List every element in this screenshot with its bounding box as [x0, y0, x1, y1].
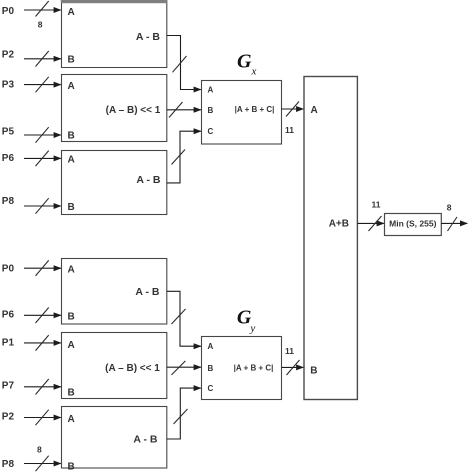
- subtractor SUB4 (A - B, row 1 of Gy): [62, 259, 167, 325]
- svg-text:B: B: [68, 55, 75, 66]
- SUB2 pin B: [68, 131, 75, 142]
- svg-text:P2: P2: [2, 412, 15, 423]
- wire U4 output (final S): [441, 222, 467, 224]
- svg-text:A: A: [208, 342, 214, 351]
- wire input P2 to SUB1.B: [24, 58, 61, 60]
- wire Gy output U2 to U3.B: [282, 366, 304, 368]
- svg-text:P0: P0: [2, 264, 15, 275]
- SUB6 function label A - B: [133, 434, 158, 446]
- subtractor SUB1 (A - B, row 1 of Gx): [61, 0, 168, 68]
- wire U3 output to U4: [357, 222, 383, 224]
- subtractor-shifter SUB5 ((A-B)<<1, row 2 of Gy): [62, 333, 167, 399]
- svg-text:P2: P2: [2, 50, 15, 61]
- svg-text:|A + B + C|: |A + B + C|: [235, 105, 275, 114]
- svg-text:B: B: [68, 388, 75, 399]
- wire SUB5 output to U2.B: [167, 366, 201, 368]
- bus width label 8 (P0 wire): [38, 20, 43, 30]
- svg-text:P6: P6: [2, 310, 15, 321]
- SUB2 function label (A - B) << 1: [106, 105, 161, 116]
- U1 pin A: [208, 86, 214, 95]
- U3 pin B: [310, 366, 317, 377]
- input port label P2 (top): [2, 50, 15, 61]
- bus slash on SUB3-U1 wire: [172, 150, 186, 165]
- bus slash on SUB1-U1 wire: [173, 56, 187, 72]
- bus slash on bottom P2 wire: [36, 410, 49, 426]
- svg-text:y: y: [249, 323, 255, 335]
- svg-text:A: A: [208, 86, 214, 95]
- adder block U3 (A+B): [304, 77, 357, 400]
- svg-text:8: 8: [447, 203, 452, 213]
- SUB3 pin B: [68, 202, 75, 213]
- wire input P6 to SUB3.A: [24, 157, 61, 159]
- svg-text:P8: P8: [2, 459, 15, 470]
- bus slash on SUB5-U2 wire: [172, 361, 186, 375]
- bus slash on P7 wire: [36, 379, 49, 395]
- wire SUB6 output to U2.C: [167, 388, 201, 439]
- bus slash on final output wire: [448, 217, 458, 231]
- wire SUB1 output to U1.A: [167, 36, 201, 90]
- bus width label 11 (Gy wire): [285, 346, 294, 356]
- SUB5 pin B: [68, 388, 75, 399]
- SUB6 pin B: [68, 461, 75, 472]
- SUB1 function label A - B: [136, 31, 161, 43]
- svg-text:A: A: [68, 340, 75, 351]
- svg-text:11: 11: [372, 200, 381, 210]
- svg-text:P5: P5: [2, 127, 15, 138]
- bus slash on SUB6-U2 wire: [174, 409, 188, 424]
- U1 pin B: [208, 106, 214, 115]
- svg-text:A: A: [68, 414, 75, 425]
- wire input P8 to SUB6.B: [24, 463, 61, 465]
- bus width label 8 (bottom P8 wire): [37, 445, 42, 455]
- bus slash on P6 wire: [36, 151, 49, 167]
- U3 function label A+B: [329, 218, 349, 229]
- svg-text:11: 11: [285, 346, 294, 356]
- svg-text:|A + B + C|: |A + B + C|: [234, 364, 274, 373]
- svg-text:x: x: [251, 66, 257, 78]
- wire input P0 to SUB1.A: [24, 9, 61, 11]
- svg-text:A - B: A - B: [136, 31, 161, 43]
- SUB4 pin B: [68, 311, 75, 322]
- bus slash on bottom P8 wire: [36, 456, 49, 472]
- svg-text:B: B: [68, 131, 75, 142]
- bus width label 8 (final output): [447, 203, 452, 213]
- bus slash on SUB2-U1 wire: [169, 102, 183, 118]
- svg-text:G: G: [237, 50, 252, 72]
- svg-text:A: A: [68, 7, 75, 18]
- U4 function label Min (S, 255): [389, 219, 436, 229]
- wire SUB2 output to U1.B: [167, 109, 201, 111]
- input port label P2 (bottom): [2, 412, 15, 423]
- U2 pin B: [208, 364, 214, 373]
- input port label P0 (top): [2, 6, 15, 17]
- U2 pin C: [208, 384, 214, 393]
- svg-text:A - B: A - B: [135, 286, 160, 298]
- wire input P3 to SUB2.A: [24, 84, 61, 86]
- absolute-sum block U2 |A+B+C| (Gy): [202, 337, 282, 400]
- svg-text:P8: P8: [2, 196, 15, 207]
- svg-text:A: A: [68, 81, 75, 92]
- svg-text:C: C: [208, 127, 214, 136]
- wire SUB4 output to U2.A: [167, 291, 201, 346]
- svg-text:B: B: [68, 461, 75, 472]
- wire input P1 to SUB5.A: [24, 342, 61, 344]
- bus slash on SUB4-U2 wire: [172, 309, 186, 324]
- svg-text:A: A: [68, 264, 75, 275]
- SUB6 pin A: [68, 414, 75, 425]
- svg-text:B: B: [310, 366, 317, 377]
- SUB5 pin A: [68, 340, 75, 351]
- SUB2 pin A: [68, 81, 75, 92]
- svg-text:A: A: [68, 155, 75, 166]
- SUB1 pin B: [68, 55, 75, 66]
- subtractor-shifter SUB2 ((A-B)<<1, row 2 of Gx): [62, 75, 167, 142]
- svg-text:A - B: A - B: [136, 174, 161, 186]
- bus slash on U3-U4 wire: [369, 216, 382, 231]
- svg-text:A: A: [311, 105, 318, 116]
- wire Gx output U1 to U3.A: [282, 108, 304, 110]
- bus slash on P8 wire: [36, 198, 49, 214]
- svg-text:B: B: [208, 364, 214, 373]
- node label Gx: [237, 50, 257, 77]
- svg-text:P3: P3: [2, 80, 15, 91]
- SUB3 pin A: [68, 155, 75, 166]
- bus width label 11 (Gx wire): [285, 125, 294, 135]
- svg-text:A+B: A+B: [329, 218, 349, 229]
- bus slash on Gy-U3 wire: [287, 360, 300, 375]
- bus slash on P2 wire: [36, 51, 49, 67]
- input port label P3: [2, 80, 15, 91]
- absolute-sum block U1 |A+B+C| (Gx): [202, 81, 282, 145]
- svg-text:P1: P1: [2, 338, 15, 349]
- input port label P7: [2, 381, 15, 392]
- SUB4 function label A - B: [135, 286, 160, 298]
- U2 pin A: [208, 342, 214, 351]
- wire input P2 to SUB6.A: [24, 417, 61, 419]
- bus slash on P1 wire: [36, 335, 49, 351]
- svg-text:P6: P6: [2, 153, 15, 164]
- wire input P8 to SUB3.B: [24, 205, 61, 207]
- U1 pin C: [208, 127, 214, 136]
- SUB4 pin A: [68, 264, 75, 275]
- bus slash on P5 wire: [36, 127, 49, 143]
- bus slash on bottom P0 wire: [36, 260, 49, 276]
- bus slash on P3 wire: [36, 77, 49, 93]
- input port label P8 (bottom): [2, 459, 15, 470]
- SUB1 pin A: [68, 7, 75, 18]
- svg-text:8: 8: [38, 20, 43, 30]
- wire input P6 to SUB4.B: [24, 314, 61, 316]
- wire input P5 to SUB2.B: [24, 134, 61, 136]
- svg-text:11: 11: [285, 125, 294, 135]
- input port label P5: [2, 127, 15, 138]
- wire input P7 to SUB5.B: [24, 386, 61, 388]
- node label Gy: [237, 307, 256, 335]
- SUB5 function label (A - B) << 1: [105, 363, 160, 374]
- bus width label 11 (U3 output): [372, 200, 381, 210]
- U2 function label |A + B + C|: [234, 364, 274, 373]
- U1 function label |A + B + C|: [235, 105, 275, 114]
- svg-text:Min (S, 255): Min (S, 255): [389, 219, 436, 229]
- subtractor SUB6 (A - B, row 3 of Gy): [62, 407, 167, 469]
- SUB3 function label A - B: [136, 174, 161, 186]
- svg-text:(A – B) << 1: (A – B) << 1: [105, 363, 160, 374]
- wire SUB3 output to U1.C: [167, 131, 201, 183]
- bus slash on Gx-U3 wire: [286, 102, 299, 117]
- svg-text:C: C: [208, 384, 214, 393]
- input port label P6 (top): [2, 153, 15, 164]
- subtractor SUB3 (A - B, row 3 of Gx): [62, 151, 167, 215]
- svg-text:B: B: [68, 202, 75, 213]
- saturation block U4 Min(S,255): [385, 214, 442, 236]
- svg-text:A - B: A - B: [133, 434, 158, 446]
- bus slash on P0 wire: [36, 1, 49, 17]
- svg-text:(A – B) << 1: (A – B) << 1: [106, 105, 161, 116]
- bus slash on bottom P6 wire: [36, 308, 49, 324]
- svg-text:B: B: [208, 106, 214, 115]
- svg-text:8: 8: [37, 445, 42, 455]
- svg-text:B: B: [68, 311, 75, 322]
- input port label P6 (bottom): [2, 310, 15, 321]
- svg-text:P0: P0: [2, 6, 15, 17]
- input port label P0 (bottom): [2, 264, 15, 275]
- input port label P8 (top): [2, 196, 15, 207]
- input port label P1: [2, 338, 15, 349]
- wire input P0 to SUB4.A: [24, 267, 61, 269]
- U3 pin A: [311, 105, 318, 116]
- svg-text:P7: P7: [2, 381, 15, 392]
